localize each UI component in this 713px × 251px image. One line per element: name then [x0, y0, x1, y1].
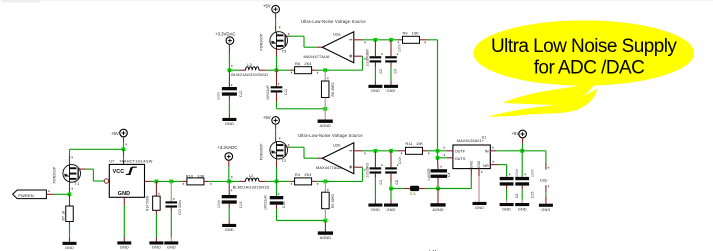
- svg-text:C21 100n: C21 100n: [178, 200, 182, 215]
- svg-text:GND: GND: [518, 206, 527, 211]
- svg-text:100n: 100n: [530, 169, 534, 177]
- svg-text:L3: L3: [247, 63, 251, 67]
- svg-text:GND: GND: [387, 88, 396, 93]
- svg-text:GND: GND: [371, 207, 380, 212]
- svg-text:+5V: +5V: [511, 131, 519, 136]
- svg-text:GND: GND: [225, 227, 234, 232]
- svg-text:U2a: U2a: [333, 31, 341, 36]
- svg-text:2K4: 2K4: [304, 173, 311, 177]
- svg-text:2K4: 2K4: [304, 62, 311, 66]
- svg-text:FDN360P: FDN360P: [259, 33, 263, 50]
- svg-text:Ultra-Low-Noise Voltage Source: Ultra-Low-Noise Voltage Source: [298, 133, 363, 138]
- svg-text:C4: C4: [447, 172, 451, 177]
- svg-text:C16: C16: [282, 201, 286, 208]
- svg-text:GND: GND: [475, 205, 484, 210]
- svg-text:R5 39R2: R5 39R2: [331, 194, 335, 208]
- svg-text:100n: 100n: [398, 157, 402, 165]
- svg-text:10u6R3ER: 10u6R3ER: [366, 49, 370, 67]
- svg-text:10K: 10K: [197, 174, 204, 178]
- svg-text:IN: IN: [485, 148, 489, 153]
- svg-text:GND: GND: [371, 88, 380, 93]
- svg-text:R7 1K: R7 1K: [61, 210, 65, 221]
- svg-text:100u6R3: 100u6R3: [366, 163, 370, 177]
- svg-text:AGND: AGND: [320, 235, 331, 240]
- svg-text:U2p: U2p: [540, 178, 547, 183]
- svg-text:GND: GND: [502, 206, 511, 211]
- svg-text:GND: GND: [120, 245, 129, 250]
- svg-text:OUTF: OUTF: [455, 148, 466, 153]
- svg-text:AGND: AGND: [432, 207, 443, 212]
- svg-text:C13: C13: [239, 201, 243, 208]
- svg-text:PWREN: PWREN: [18, 193, 34, 198]
- svg-text:Ultra-Low-Noise Voltage Source: Ultra-Low-Noise Voltage Source: [301, 19, 366, 24]
- svg-text:+3.3VADC: +3.3VADC: [217, 145, 237, 150]
- svg-text:R4: R4: [295, 173, 300, 177]
- svg-text:NR: NR: [483, 163, 489, 168]
- svg-text:+5V: +5V: [263, 115, 271, 120]
- svg-text:100n: 100n: [217, 200, 221, 208]
- svg-text:L2: L2: [249, 174, 253, 178]
- svg-text:16V22uR: 16V22uR: [263, 195, 267, 210]
- svg-text:100n: 100n: [398, 44, 402, 52]
- svg-text:100n: 100n: [216, 92, 220, 100]
- svg-text:R9: R9: [403, 32, 408, 36]
- svg-text:T1: T1: [75, 181, 80, 186]
- svg-text:R11: R11: [406, 142, 413, 146]
- svg-text:16V22uR: 16V22uR: [266, 85, 270, 100]
- svg-text:U2b: U2b: [333, 142, 340, 147]
- svg-text:BLM21AG331SN1D: BLM21AG331SN1D: [231, 72, 268, 77]
- svg-text:GND: GND: [118, 191, 130, 197]
- svg-text:T2: T2: [282, 158, 287, 163]
- svg-text:GND: GND: [225, 121, 234, 126]
- svg-text:GND: GND: [152, 245, 161, 250]
- svg-text:FDN360P: FDN360P: [259, 143, 263, 160]
- svg-text:10K: 10K: [412, 32, 419, 36]
- svg-text:R8 39R2: R8 39R2: [331, 82, 335, 96]
- svg-text:GND: GND: [167, 245, 176, 250]
- svg-text:+5V: +5V: [111, 131, 119, 136]
- svg-text:MAX6126A21+: MAX6126A21+: [457, 139, 485, 143]
- svg-text:OUTS: OUTS: [455, 156, 466, 161]
- svg-text:C3: C3: [379, 180, 383, 185]
- svg-text:FDN302P: FDN302P: [52, 166, 56, 183]
- svg-text:C15: C15: [530, 191, 534, 198]
- svg-text:GND: GND: [387, 207, 396, 212]
- svg-text:T3: T3: [282, 48, 287, 53]
- svg-text:C8: C8: [395, 180, 399, 185]
- svg-text:10K: 10K: [416, 142, 423, 146]
- svg-text:C9: C9: [393, 69, 397, 74]
- svg-text:GND: GND: [477, 160, 481, 168]
- svg-text:C12: C12: [239, 90, 243, 97]
- svg-text:+5V: +5V: [263, 4, 271, 9]
- svg-text:SJ1: SJ1: [410, 192, 416, 196]
- svg-text:GND: GND: [541, 207, 550, 212]
- svg-text:100n: 100n: [515, 169, 519, 177]
- svg-text:MAX4477AUA: MAX4477AUA: [316, 165, 342, 170]
- svg-text:C2: C2: [379, 69, 383, 74]
- svg-text:+3.3VDAC: +3.3VDAC: [215, 32, 235, 37]
- svg-text:C6: C6: [515, 193, 519, 198]
- svg-text:GND: GND: [470, 160, 474, 168]
- svg-text:VCC: VCC: [113, 169, 125, 175]
- svg-text:AGND: AGND: [320, 123, 331, 128]
- svg-text:U7: U7: [109, 160, 114, 164]
- svg-text:R14 500R: R14 500R: [145, 195, 149, 211]
- svg-text:BLM21AG331SN1D: BLM21AG331SN1D: [233, 184, 270, 189]
- svg-text:1u63ZR: 1u63ZR: [427, 168, 431, 181]
- svg-text:MAX4477AUA: MAX4477AUA: [304, 54, 330, 59]
- svg-text:R10: R10: [186, 174, 193, 178]
- svg-text:for ADC /DAC: for ADC /DAC: [534, 58, 645, 79]
- svg-text:74AHCT1G14GW: 74AHCT1G14GW: [119, 160, 153, 164]
- svg-text:R6: R6: [295, 62, 300, 66]
- svg-text:C11: C11: [284, 89, 288, 95]
- svg-text:GND: GND: [65, 245, 74, 250]
- svg-text:Ultra Low Noise Supply: Ultra Low Noise Supply: [491, 36, 677, 57]
